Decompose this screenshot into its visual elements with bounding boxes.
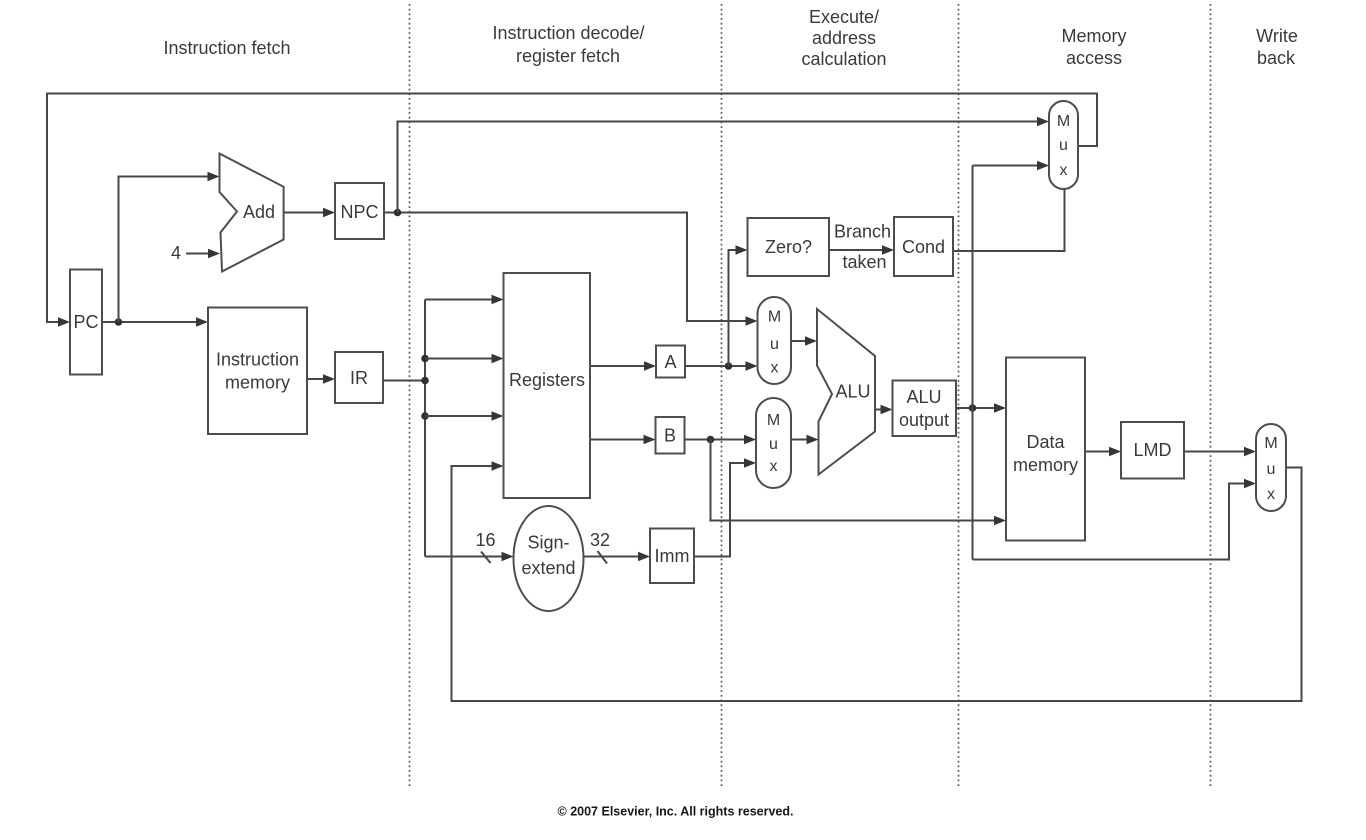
wire: Sign-extend to Imm [584, 552, 651, 561]
junction: ALU output node [969, 404, 977, 412]
junction: NPC output node [394, 209, 402, 217]
junction: bus node at IR line [421, 377, 429, 385]
svg-text:Write: Write [1256, 26, 1298, 46]
Data memory [1006, 358, 1085, 541]
svg-text:u: u [770, 336, 779, 353]
wire: Data memory to LMD [1085, 447, 1121, 456]
svg-text:extend: extend [521, 558, 575, 578]
wire: Add to NPC [284, 208, 335, 217]
Zero? tester [748, 218, 830, 276]
wire: decode vertical bus [424, 300, 426, 557]
svg-text:x: x [1060, 162, 1068, 179]
svg-text:4: 4 [171, 243, 181, 263]
copyright notice [558, 805, 794, 819]
svg-text:Imm: Imm [655, 546, 690, 566]
svg-text:address: address [812, 28, 876, 48]
bus width tick 16 [481, 552, 491, 564]
PC-select mux [1049, 101, 1078, 189]
svg-text:IR: IR [350, 368, 368, 388]
svg-text:Memory: Memory [1061, 26, 1126, 46]
svg-text:Registers: Registers [509, 370, 585, 390]
svg-text:Data: Data [1026, 432, 1065, 452]
svg-text:memory: memory [225, 373, 290, 393]
stage label: Execute / address calculation [801, 7, 886, 69]
wire: constant 4 to Add input 2 [186, 249, 220, 258]
wire: IR output to decode bus [383, 380, 425, 382]
svg-text:© 2007 Elsevier, Inc. All righ: © 2007 Elsevier, Inc. All rights reserve… [558, 805, 794, 819]
wire: Registers to A [590, 361, 656, 370]
svg-text:x: x [1267, 486, 1275, 503]
svg-text:u: u [1059, 137, 1068, 154]
wire: bus to Sign-extend [425, 552, 514, 561]
svg-text:32: 32 [590, 530, 610, 550]
label Branch taken [834, 222, 891, 273]
junction: PC output node [115, 318, 123, 326]
svg-text:B: B [664, 426, 676, 446]
svg-text:u: u [769, 436, 778, 453]
LMD register [1121, 422, 1184, 479]
wire: branch target to PC-select mux input 2 [973, 161, 1050, 170]
wire: bus to Registers input 3 [425, 411, 504, 420]
wire: bus to Registers input 2 [425, 354, 504, 363]
wire: ALU output bypass to WB mux input 2 [973, 479, 1257, 560]
wire: ALU output to Data memory [956, 403, 1006, 412]
svg-text:16: 16 [475, 530, 495, 550]
wire: Cond to PC-select mux select input [953, 189, 1065, 251]
wire: B to EX mux B input 1 [685, 435, 757, 444]
svg-text:Branch: Branch [834, 222, 891, 242]
junction: bus node at register input 3 [421, 412, 429, 420]
svg-text:Sign-: Sign- [527, 533, 569, 553]
Registers file [504, 273, 591, 498]
junction: bus node at register input 2 [421, 355, 429, 363]
label 32 [590, 530, 610, 550]
stage label: Instruction decode / register fetch [492, 23, 644, 66]
wire: NPC output across to EX mux A input 1 [384, 213, 758, 326]
stage label: Write back [1256, 26, 1298, 68]
svg-text:PC: PC [73, 312, 98, 332]
svg-text:M: M [768, 309, 781, 326]
wire: NPC node up and across to PC-select mux input 1 [398, 117, 1050, 213]
svg-text:x: x [771, 360, 779, 377]
svg-text:ALU: ALU [906, 387, 941, 407]
Sign-extend unit [514, 506, 584, 611]
wire: ALU output vertical branch line [972, 166, 974, 560]
wire: LMD to WB mux input 1 [1184, 447, 1256, 456]
stage separator dotted line 4 [1210, 4, 1212, 787]
wire: PC-select mux output feedback loop to PC input [47, 94, 1097, 327]
B register [656, 417, 685, 454]
junction: A output node [725, 362, 733, 370]
svg-text:x: x [770, 458, 778, 475]
wire: bus to Registers input 1 [425, 295, 504, 304]
svg-text:Execute/: Execute/ [809, 7, 879, 27]
wire: EX mux B to ALU [791, 435, 819, 444]
svg-text:calculation: calculation [801, 49, 886, 69]
bus width tick 32 [598, 551, 608, 564]
PC register [70, 270, 102, 375]
stage separator dotted line 3 [958, 4, 960, 787]
wire: Zero? to Cond [829, 245, 894, 254]
constant 4 label [171, 243, 181, 263]
wire: A to EX mux A input 2 [685, 361, 758, 370]
IR register [335, 352, 383, 403]
svg-text:A: A [664, 352, 676, 372]
ALU output register [893, 381, 957, 437]
svg-text:taken: taken [842, 252, 886, 272]
stage separator dotted line 1 [409, 4, 411, 787]
EX mux B [756, 398, 791, 488]
wire: ALU to ALU output register [875, 405, 893, 414]
stage label: Memory access [1061, 26, 1126, 68]
svg-text:Zero?: Zero? [765, 237, 812, 257]
svg-text:access: access [1066, 48, 1122, 68]
wire: EX mux A to ALU [791, 336, 817, 345]
ALU [817, 309, 875, 475]
stage label: Instruction fetch [163, 38, 290, 58]
svg-text:memory: memory [1013, 455, 1078, 475]
svg-text:register fetch: register fetch [516, 46, 620, 66]
svg-text:u: u [1267, 461, 1276, 478]
svg-text:Add: Add [243, 202, 275, 222]
Imm register [650, 529, 694, 584]
wire: A node up to Zero? [729, 245, 748, 366]
wire: Registers to B [590, 435, 656, 444]
svg-text:NPC: NPC [340, 202, 378, 222]
wire: B node down and across to Data memory store input [711, 440, 1007, 526]
svg-text:Instruction: Instruction [216, 350, 299, 370]
svg-text:Instruction decode/: Instruction decode/ [492, 23, 644, 43]
svg-text:Cond: Cond [902, 237, 945, 257]
svg-text:M: M [1264, 435, 1277, 452]
EX mux A [758, 297, 792, 384]
svg-text:M: M [1057, 113, 1070, 130]
svg-text:output: output [899, 410, 949, 430]
svg-text:ALU: ALU [835, 382, 870, 402]
wire: write-back loop from WB mux around to Registers write input [452, 461, 1302, 701]
label 16 [475, 530, 495, 550]
wire: Imm up to EX mux B input 2 [694, 458, 756, 556]
adder Add [220, 154, 284, 272]
Instruction memory [208, 308, 307, 435]
svg-text:LMD: LMD [1133, 440, 1171, 460]
wire: PC up to Add input 1 [119, 172, 220, 322]
WB mux [1256, 424, 1286, 511]
stage separator dotted line 2 [721, 4, 723, 787]
wire: PC to Instruction memory [102, 317, 208, 326]
A register [656, 346, 685, 378]
wire: Instruction memory to IR [307, 374, 335, 383]
svg-text:M: M [767, 412, 780, 429]
svg-text:back: back [1257, 48, 1296, 68]
Cond register [894, 217, 953, 276]
NPC register [335, 183, 384, 239]
svg-text:Instruction fetch: Instruction fetch [163, 38, 290, 58]
junction: B output node [707, 436, 715, 444]
